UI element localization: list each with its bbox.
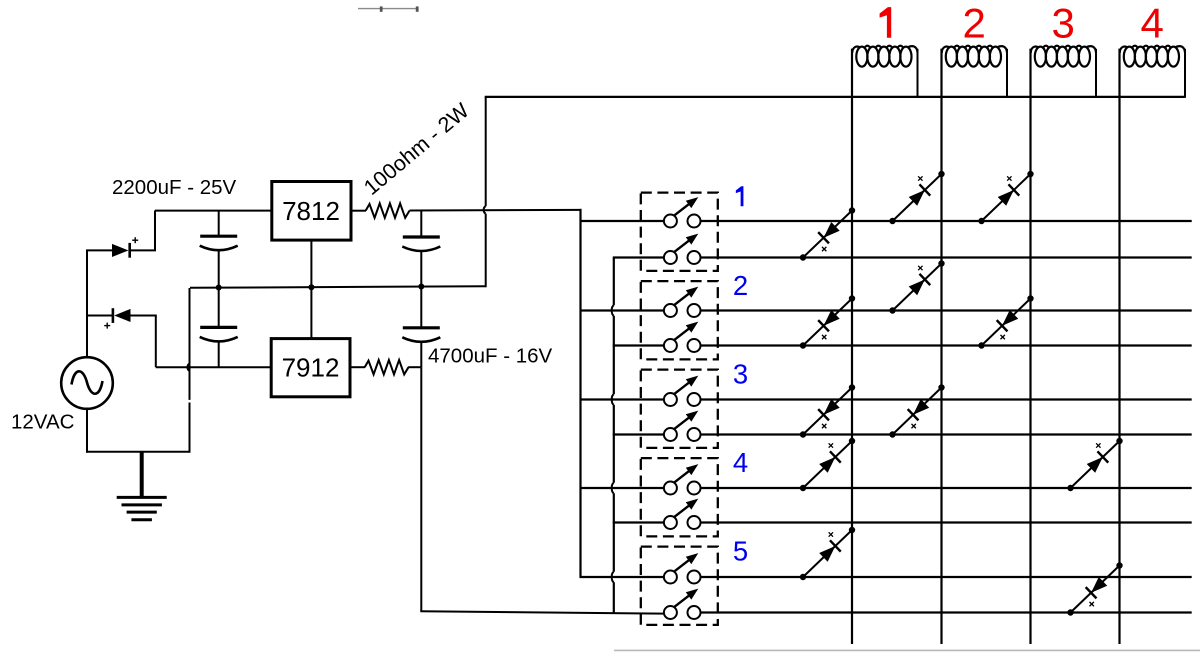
svg-text:3: 3 bbox=[1052, 0, 1075, 47]
diode D2 (rectifier, cathode left) bbox=[113, 308, 131, 323]
inductor coil 4 bbox=[1120, 46, 1185, 98]
inductor coil 3 bbox=[1031, 46, 1096, 98]
wire -12V drop and bottom feed bbox=[420, 367, 664, 613]
matrix column wire 3 bbox=[1029, 49, 1031, 644]
switch SW10 row 10 bbox=[664, 589, 1192, 619]
resistor R2 zigzag bbox=[365, 360, 409, 374]
svg-text:7912: 7912 bbox=[282, 352, 340, 382]
svg-text:12VAC: 12VAC bbox=[11, 411, 75, 434]
diode D11 col1 row7 bbox=[800, 438, 855, 491]
regulator U2 7912 box bbox=[271, 339, 350, 397]
diode D5 col3 row1 bbox=[978, 171, 1033, 224]
junction dot C1/C2 bbox=[216, 285, 222, 291]
svg-text:100ohm - 2W: 100ohm - 2W bbox=[359, 98, 474, 200]
label coil 1 (red) bbox=[880, 7, 892, 38]
dashed group box 3 bbox=[641, 370, 718, 448]
svg-text:5: 5 bbox=[733, 535, 748, 566]
inductor coil 2 bbox=[942, 46, 1007, 98]
plus label at D1 cathode bbox=[132, 237, 138, 243]
diode D13 col1 row9 bbox=[800, 527, 855, 580]
diode D6 col1 row4 bbox=[800, 295, 855, 348]
wire AC-bottom bbox=[86, 409, 88, 453]
matrix column wire 4 bbox=[1118, 49, 1120, 644]
ground symbol bbox=[117, 452, 167, 520]
svg-text:2200uF - 25V: 2200uF - 25V bbox=[112, 176, 237, 199]
faint top artifact line bbox=[358, 6, 419, 11]
diode D14 col4 row10 bbox=[1067, 562, 1122, 615]
dashed group box 1 bbox=[641, 193, 718, 271]
wire AC-top to rectifier node bbox=[86, 250, 88, 357]
capacitor C4 4700uF bbox=[402, 287, 440, 368]
switch SW2 row 2 bbox=[613, 234, 1192, 264]
wire D2 cathode from node bbox=[86, 315, 113, 317]
regulator U1 7812 box bbox=[272, 182, 351, 241]
diode D10 col2 row6 bbox=[889, 384, 944, 437]
svg-text:7812: 7812 bbox=[282, 196, 340, 226]
AC sine symbol bbox=[72, 371, 103, 393]
resistor R1 100ohm lead bbox=[352, 210, 367, 212]
diode D3 col1 row2 bbox=[800, 207, 855, 260]
inductor coil 1 bbox=[852, 46, 917, 98]
svg-text:4700uF - 16V: 4700uF - 16V bbox=[428, 344, 553, 367]
diode D12 col4 row7 bbox=[1067, 438, 1122, 491]
wire R1 to switch bus (hopped at riser) bbox=[410, 209, 582, 212]
diode D1 wire from node bbox=[86, 249, 112, 251]
capacitor C3 bbox=[402, 211, 440, 288]
wire bottom return bbox=[86, 451, 191, 453]
switch SW6 row 6 bbox=[613, 411, 1192, 441]
junction dot mid-rail/regulators bbox=[308, 284, 314, 290]
diode D7 col2 row3 bbox=[889, 260, 944, 313]
wire common riser (hops +12 wire) bbox=[484, 97, 486, 287]
+12V switch bus vertical bbox=[579, 209, 581, 578]
wire gap artifact bbox=[188, 400, 191, 403]
dashed group box 5 bbox=[641, 547, 718, 625]
svg-text:2: 2 bbox=[733, 270, 748, 301]
wire return riser (hops -rail) bbox=[187, 288, 189, 452]
wire R2 to -bus drop bbox=[408, 366, 421, 368]
switch SW5 row 5 bbox=[580, 376, 1192, 406]
matrix column wire 2 bbox=[940, 49, 942, 644]
junction dot C3/C4 bbox=[418, 284, 424, 290]
dashed group box 2 bbox=[641, 281, 718, 359]
resistor R2 lead bbox=[350, 366, 365, 368]
dashed group box 4 bbox=[641, 458, 718, 536]
wire D2 anode to 7912 input drop bbox=[131, 316, 156, 368]
diode D8 col3 row4 bbox=[978, 295, 1033, 348]
svg-text:3: 3 bbox=[733, 358, 748, 389]
switch SW7 row 7 bbox=[580, 464, 1192, 494]
capacitor C1 2200uF bbox=[200, 211, 238, 289]
switch SW4 row 4 bbox=[613, 322, 1192, 352]
faint bottom artifact line bbox=[614, 649, 1200, 651]
switch SW9 row 9 bbox=[580, 553, 1192, 583]
switch SW3 row 3 bbox=[580, 287, 1192, 317]
svg-text:4: 4 bbox=[1141, 0, 1164, 47]
svg-text:4: 4 bbox=[733, 447, 748, 478]
resistor R1 100ohm zigzag bbox=[366, 203, 410, 217]
diode D4 col2 row1 bbox=[889, 171, 944, 224]
switch SW1 row 1 bbox=[580, 197, 1192, 227]
wire D1 cathode to +rail bbox=[129, 211, 156, 251]
ground mid-rail bbox=[190, 286, 486, 288]
wire +rail to 7812 input bbox=[155, 210, 271, 212]
wire -rail to 7912 input bbox=[156, 366, 271, 368]
diode D9 col1 row6 bbox=[800, 384, 855, 437]
label group 1 (blue) bbox=[736, 186, 744, 206]
svg-text:2: 2 bbox=[963, 0, 986, 47]
matrix column wire 1 bbox=[851, 49, 853, 644]
wire 7812 ground pin to 7912 bbox=[310, 241, 312, 339]
capacitor C2 bbox=[200, 288, 238, 368]
AC source circle (12VAC) bbox=[61, 357, 113, 409]
-12V switch bus vertical (hops odd rows) bbox=[612, 258, 614, 614]
plus label at D2 cathode bbox=[104, 323, 110, 329]
diode D1 (rectifier, anode left) bbox=[112, 243, 130, 258]
top common bus bbox=[485, 96, 1185, 98]
switch SW8 row 8 bbox=[613, 499, 1192, 529]
